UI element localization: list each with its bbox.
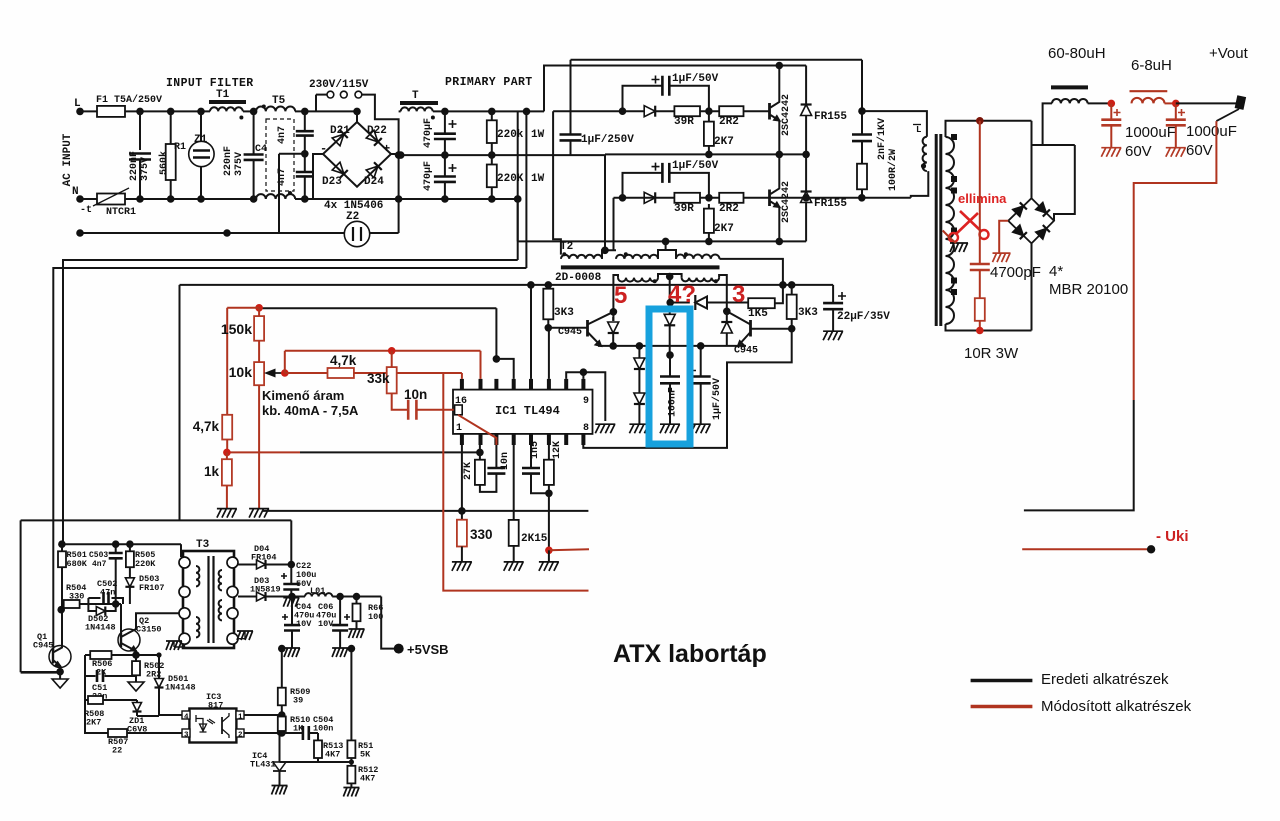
diode D21 (332, 130, 348, 146)
T3 core (207, 556, 209, 643)
ground pin6 net (539, 562, 559, 571)
capacitor 470uF upper (434, 134, 456, 139)
tap marker (951, 188, 957, 194)
wire (85, 654, 90, 656)
aux supply rail (180, 284, 834, 286)
diode left driver (608, 322, 619, 333)
svg-text:60V: 60V (1125, 143, 1152, 160)
svg-text:3: 3 (732, 281, 745, 308)
svg-text:TL431: TL431 (250, 760, 276, 770)
capacitor 1uF/50V lower (662, 163, 669, 183)
svg-text:MBR 20100: MBR 20100 (1049, 281, 1128, 298)
wire left branch (84, 655, 86, 700)
bridge rectifier MBR 20100 (1008, 198, 1054, 243)
red wire down (226, 308, 228, 415)
svg-text:FR104: FR104 (251, 553, 277, 563)
resistor 1K5 (748, 298, 775, 308)
top rail +HV (433, 110, 544, 112)
driver emitter rail (598, 345, 746, 347)
capacitor 4700pF (970, 264, 990, 270)
red wire snubber sec (979, 121, 981, 264)
svg-text:220k: 220k (497, 129, 524, 141)
wire to IC3 pin3 (127, 732, 185, 734)
wire secondary top (946, 121, 1032, 137)
wire N to NTCR1 (80, 198, 97, 200)
red wire (284, 351, 286, 373)
red wire (1175, 103, 1177, 119)
red wire bottom rail (443, 373, 588, 591)
bridge rectifier D21 D22 D23 D24 (323, 122, 391, 187)
wire 4n7 mid to earth (279, 153, 305, 155)
svg-text:4n7: 4n7 (92, 560, 107, 569)
resistor R1 560k (166, 144, 176, 180)
emitter arrow right (738, 341, 743, 346)
wire pins 13+14 (495, 308, 497, 359)
svg-text:1K5: 1K5 (748, 308, 768, 320)
wire to T2 W1 (553, 111, 561, 254)
pin stub top (564, 434, 568, 445)
red wire center tap (943, 231, 950, 239)
wire to reference divider (259, 307, 496, 309)
T3 winding p2 (196, 617, 199, 637)
svg-text:12K: 12K (552, 441, 563, 459)
svg-text:T2: T2 (560, 241, 573, 253)
half-bridge midpoint rail (605, 153, 806, 155)
svg-text:C3150: C3150 (136, 625, 162, 635)
svg-text:IC1 TL494: IC1 TL494 (495, 404, 560, 418)
svg-text:39R: 39R (674, 203, 694, 215)
resistor 2K7 upper (704, 122, 714, 146)
mid rail divider (399, 154, 571, 156)
capacitor 1000uF 60V #2 (1166, 120, 1186, 126)
pin stub bottom (564, 379, 568, 390)
wire pin1 (461, 445, 463, 511)
wire to left collector (613, 275, 618, 312)
wire (547, 285, 549, 289)
W2-W3 center tap (658, 241, 666, 259)
svg-text:100R/2W: 100R/2W (887, 149, 899, 191)
scissors red (956, 211, 981, 234)
plus mark (449, 120, 457, 128)
svg-text:220nF: 220nF (129, 151, 140, 181)
wire HV feed to standby (517, 111, 519, 260)
bottom rail -HV (295, 198, 518, 200)
T2 winding W3 (676, 255, 720, 259)
capacitor C503 4n7 (109, 553, 123, 558)
red wire to pin16 (354, 372, 462, 374)
plus mark (652, 163, 660, 171)
wire to C22 (290, 565, 292, 585)
fuse F1 (97, 106, 125, 117)
lower base rail / primary return (614, 197, 862, 199)
transformer T main secondary (946, 137, 955, 324)
capacitor 1uF/250V (560, 135, 582, 141)
wire pin8 path (583, 329, 791, 448)
wire T3 to D04 (238, 564, 256, 566)
red diagonal to pin3 (458, 415, 496, 445)
svg-text:375V: 375V (140, 157, 151, 181)
svg-text:375V: 375V (234, 152, 245, 176)
dashed box T5 (266, 119, 294, 191)
tap marker (951, 176, 957, 182)
svg-text:60-80uH: 60-80uH (1048, 45, 1106, 62)
diode D04 FR104 (257, 560, 266, 569)
wire D502 branch (88, 604, 115, 611)
capacitor 4n7 upper (296, 131, 314, 135)
Q2 base wire (120, 604, 122, 640)
diode marked 4 (664, 314, 675, 325)
red wire bridge minus (999, 221, 1008, 253)
svg-text:+: + (383, 142, 390, 156)
wire R509 top (281, 649, 283, 688)
svg-text:2: 2 (238, 732, 243, 740)
plus mark (449, 164, 457, 172)
wire F1 to T1 (125, 110, 210, 112)
resistor 2R2 upper (719, 106, 743, 116)
svg-text:+5VSB: +5VSB (407, 642, 449, 657)
capacitor 470uF lower (434, 177, 456, 182)
svg-text:9: 9 (583, 396, 589, 407)
ground 22uF (823, 331, 843, 340)
resistor 39R lower (674, 193, 700, 203)
red node 33k top (388, 347, 396, 355)
ground pot (249, 509, 269, 518)
wire AC bottom (1031, 243, 1033, 330)
pin stub bottom (512, 379, 516, 390)
wire (200, 167, 202, 199)
T3 pin left (179, 633, 190, 644)
svg-text:ellimina: ellimina (958, 191, 1007, 206)
wire aux bottom (21, 519, 292, 521)
transformer T3 (183, 551, 234, 648)
diode base upper (644, 106, 655, 117)
tap marker (951, 278, 957, 284)
resistor R66 100 (353, 604, 361, 622)
wire R510 to TL431 (279, 733, 281, 755)
wire (708, 111, 710, 121)
svg-text:6-8uH: 6-8uH (1131, 57, 1172, 74)
svg-text:4700pF: 4700pF (990, 264, 1041, 281)
resistor 33k (387, 367, 397, 393)
svg-text:1µF/250V: 1µF/250V (581, 134, 634, 146)
svg-text:L: L (916, 125, 921, 135)
resistor R513 4K7 (314, 740, 322, 758)
ground 1k (217, 509, 237, 518)
wire sense black part (1024, 400, 1134, 510)
resistor 39R upper (674, 106, 700, 116)
wire R501 to Q1 (61, 567, 63, 646)
emitter arrow lower (774, 203, 779, 207)
resistor 1k (222, 459, 232, 485)
wire -HV to rail (517, 199, 519, 241)
wire (700, 346, 702, 377)
resistor R504 330 (64, 600, 80, 608)
pin stub bottom (547, 379, 551, 390)
svg-text:10n: 10n (500, 452, 511, 470)
svg-text:-t: -t (80, 205, 92, 216)
capacitor C04 470u 10V (284, 625, 300, 630)
wire T5 to bridge (295, 110, 357, 112)
svg-text:39: 39 (293, 696, 303, 706)
svg-text:3: 3 (184, 732, 189, 740)
transformer T main primary (923, 137, 927, 171)
diode MBR top-right (1036, 202, 1050, 216)
T3 pin left (227, 557, 238, 568)
diode 4? horizontal (694, 295, 696, 310)
wire to IC3 pin4 (159, 714, 185, 716)
pin stub top (460, 434, 464, 445)
wire (669, 303, 671, 315)
svg-text:FR155: FR155 (814, 111, 847, 123)
wire L to F1 (80, 110, 97, 112)
capacitor 10n red (408, 400, 416, 420)
varistor Z1 (189, 141, 214, 166)
transformer T main core (935, 134, 938, 326)
svg-text:+Vout: +Vout (1209, 45, 1249, 62)
wire diagonal (1216, 109, 1239, 121)
svg-text:1N5819: 1N5819 (250, 585, 281, 595)
terminal +5VSB (394, 644, 404, 654)
wire (291, 597, 293, 626)
diode D22 (366, 130, 382, 146)
wire W3 to aux node (720, 259, 783, 285)
pin stub top (547, 434, 551, 445)
wire (861, 60, 863, 111)
diode clamp 2 (634, 393, 645, 404)
resistor 2K7 lower (704, 209, 714, 233)
pin stub top (581, 434, 585, 445)
resistor R505 220K (126, 551, 134, 567)
pin 1 entry box (455, 405, 463, 415)
earth rail (80, 232, 345, 234)
wire switch right to mid rail (362, 95, 399, 233)
wire ref (318, 761, 351, 763)
wire low rail (262, 510, 588, 512)
HV wire to standby 2 (53, 268, 526, 650)
capacitor 220nF/375V #2 (244, 155, 264, 160)
wire to +5VSB (381, 597, 399, 649)
wire aux rail down (179, 285, 181, 521)
wire to +Vout (1176, 102, 1237, 104)
T3 pin left (179, 586, 190, 597)
svg-text:NTCR1: NTCR1 (106, 207, 136, 218)
pin stub top (479, 434, 483, 445)
wire (243, 110, 256, 112)
wire (570, 60, 572, 135)
highlight blue box (649, 309, 690, 444)
svg-text:1n5: 1n5 (530, 441, 541, 459)
svg-text:470µF: 470µF (423, 118, 434, 148)
svg-text:ATX labortáp: ATX labortáp (613, 640, 767, 668)
ground 1000uF #1 (1101, 148, 1121, 157)
wire pins 9 10 ground (566, 372, 605, 421)
wire HV feed 2 (525, 111, 527, 268)
pin stub top (529, 434, 533, 445)
emitter arrow upper (774, 116, 779, 120)
wire primary bottom (862, 171, 929, 198)
zener ZD1 C6V8 (133, 703, 142, 712)
ground 100nF (660, 424, 680, 433)
resistor 220k 1W upper (487, 120, 497, 143)
svg-text:4?: 4? (668, 281, 696, 308)
legend black line (971, 679, 1033, 683)
svg-text:Z1: Z1 (194, 134, 208, 146)
wire bridge plus to mid rail (391, 153, 399, 155)
svg-text:T5: T5 (272, 95, 286, 107)
T3 pin right (227, 586, 238, 597)
wire (85, 700, 108, 733)
terminal +Vout (1235, 95, 1247, 110)
wire (670, 302, 690, 304)
svg-text:1W: 1W (531, 129, 545, 141)
resistor R510 1K (278, 717, 286, 732)
core bar choke (1051, 85, 1088, 89)
svg-text:1µF/50V: 1µF/50V (672, 160, 719, 172)
T2 winding lower right (682, 278, 720, 282)
wire pin11 up (548, 328, 550, 379)
plus mark (652, 76, 660, 84)
resistor R502 2R2 (132, 661, 140, 675)
wire pin1 to R509 (244, 714, 282, 716)
emitter arrow (596, 341, 601, 346)
resistor 10R 3W (975, 298, 985, 321)
tap marker (951, 289, 957, 295)
terminal PE (76, 229, 84, 237)
resistor 4.7k left (222, 415, 232, 440)
ground 2K15 (504, 562, 524, 571)
tap marker (951, 228, 957, 234)
core bar T (400, 101, 438, 105)
T3 pin right (227, 608, 238, 619)
svg-text:AC INPUT: AC INPUT (62, 133, 74, 186)
svg-text:220K: 220K (135, 559, 156, 569)
resistor R509 39 (278, 688, 286, 706)
resistor R51 5K (347, 740, 355, 758)
svg-text:Kimenő áram: Kimenő áram (262, 388, 344, 403)
ground C04 (284, 648, 300, 657)
wire T3 to D03 (238, 596, 256, 598)
svg-text:T: T (412, 90, 419, 102)
capacitor C22 100u 50V (283, 584, 299, 590)
svg-text:D22: D22 (367, 125, 387, 137)
T3 pin left (179, 608, 190, 619)
svg-text:3K3: 3K3 (798, 307, 818, 319)
resistor R501 680K (58, 551, 66, 567)
svg-text:1: 1 (456, 423, 462, 434)
wire (708, 204, 710, 209)
capacitor 22uF/35V (823, 303, 843, 309)
capacitor 100nF (660, 377, 680, 384)
terminal -Uki (1147, 545, 1155, 553)
wire (170, 180, 172, 199)
ground 330 (452, 562, 472, 571)
transistor C945 left (586, 320, 589, 337)
svg-text:INPUT FILTER: INPUT FILTER (166, 77, 254, 90)
diode MBR top-left (1013, 202, 1027, 216)
wire (370, 232, 399, 234)
svg-text:1N4148: 1N4148 (85, 623, 116, 633)
red wire stub (549, 549, 589, 550)
wire R51 top (350, 649, 352, 741)
core bar 6-8uH (1130, 90, 1168, 92)
svg-text:4*: 4* (1049, 263, 1063, 280)
T2 winding lower left (618, 278, 658, 282)
svg-text:60V: 60V (1186, 142, 1213, 159)
svg-text:3K3: 3K3 (554, 307, 574, 319)
svg-text:4K7: 4K7 (360, 774, 375, 784)
wire (304, 154, 306, 172)
svg-text:R1: R1 (174, 142, 186, 153)
wire (339, 597, 341, 626)
wire pin12 VCC (530, 285, 532, 379)
capacitor C504 100n (303, 726, 309, 740)
svg-text:1N4148: 1N4148 (165, 683, 196, 693)
wire C502 branch (88, 598, 123, 604)
resistor R508 2K7 (88, 696, 103, 704)
legend red line (971, 705, 1033, 709)
upper base rail (553, 110, 645, 112)
wire pin6 (548, 445, 550, 460)
red node wiper (281, 369, 289, 377)
wire to choke (1032, 144, 1075, 146)
terminal L (76, 108, 84, 116)
red wire (227, 307, 259, 309)
svg-text:C945: C945 (558, 327, 582, 338)
wire (139, 111, 141, 150)
Q2 collector to T3 (121, 613, 182, 637)
svg-text:2nF/1KV: 2nF/1KV (876, 118, 888, 160)
ground TL431 (272, 786, 288, 795)
ground R512 (343, 788, 359, 797)
resistor 150k (254, 316, 264, 341)
transistor Q upper 2SC4242 (768, 103, 771, 120)
red sense wire (1134, 121, 1217, 400)
wire (304, 176, 306, 199)
resistor 3K3 right (787, 295, 797, 319)
diode D24 (366, 162, 382, 178)
wire (1088, 102, 1112, 104)
wire choke left (1043, 103, 1052, 145)
wire pin4 (513, 445, 515, 520)
svg-text:4x 1N5406: 4x 1N5406 (324, 200, 383, 212)
resistor 2K15 (509, 520, 519, 546)
wire NTCR1 to T5 (125, 198, 256, 200)
core bar T1 (209, 100, 246, 104)
resistor R506 2K (90, 651, 111, 659)
ground 1000uF #2 (1166, 148, 1186, 157)
ground C22 (283, 598, 299, 607)
svg-text:- Uki: - Uki (1156, 528, 1189, 545)
diode right driver (721, 322, 732, 333)
wiper arrow line (268, 372, 285, 374)
diode D03 1N5819 (257, 592, 266, 601)
wire (135, 655, 137, 661)
svg-text:D24: D24 (364, 176, 384, 188)
capacitor C06 470u 10V (332, 625, 348, 630)
diode MBR bottom-left (1013, 225, 1027, 239)
T2 winding W1 (561, 255, 602, 259)
wire (139, 160, 141, 200)
svg-text:F1 T5A/250V: F1 T5A/250V (96, 94, 162, 106)
capacitor 2nF/1KV (852, 135, 872, 142)
resistor 27K (475, 460, 485, 485)
svg-text:1µF/50V: 1µF/50V (711, 378, 723, 420)
diode FR155 upper (805, 66, 807, 105)
wire AC top (1031, 121, 1033, 198)
resistor 3K3 left (543, 289, 553, 320)
resistor 100R/2W (857, 164, 867, 190)
svg-text:680K: 680K (67, 559, 88, 569)
